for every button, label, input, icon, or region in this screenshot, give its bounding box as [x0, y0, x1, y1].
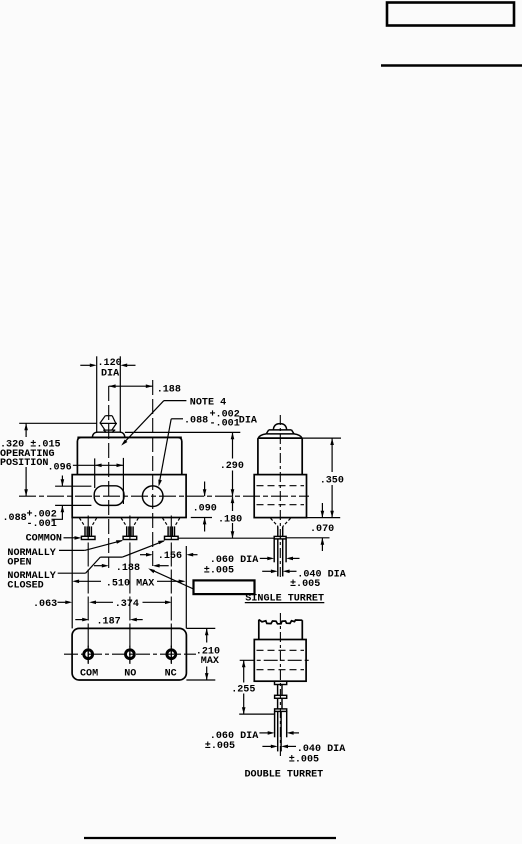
svg-text:±.005: ±.005 — [290, 579, 320, 590]
terminal COM — [79, 518, 96, 540]
double turret break line top — [259, 620, 303, 624]
double turret washer 1 — [275, 695, 287, 698]
extension line left body — [71, 518, 73, 629]
operating position reference line — [19, 422, 97, 424]
double turret stem segment 1 — [278, 685, 282, 696]
dim .040 DIA single turret — [262, 569, 347, 590]
svg-text:.374: .374 — [115, 599, 139, 610]
dim .060 DIA single turret — [204, 555, 300, 576]
note 4 label and leader — [121, 397, 226, 445]
double turret stem segment 2 — [278, 698, 282, 709]
svg-text:MAX: MAX — [201, 656, 220, 667]
svg-text:.120: .120 — [98, 358, 122, 369]
dim .120 DIA — [80, 358, 135, 380]
dim .180 — [218, 496, 242, 538]
double turret .255 bottom reference line — [239, 713, 274, 715]
plunger sides / .120 extension lines — [97, 356, 121, 432]
bottom view hole NO — [125, 646, 134, 663]
svg-text:NC: NC — [165, 668, 177, 679]
single turret center line — [279, 415, 281, 577]
svg-text:COMMON: COMMON — [26, 533, 62, 544]
single turret funnel — [271, 518, 291, 526]
single turret body — [254, 475, 306, 518]
svg-text:NO: NO — [124, 668, 136, 679]
terminal base line to single turret — [178, 537, 274, 539]
circle hole center line vertical — [152, 380, 154, 572]
double turret caption — [245, 769, 324, 780]
dim .156 — [140, 551, 198, 562]
svg-text:.180: .180 — [218, 514, 242, 525]
double turret head — [259, 620, 303, 640]
label NORMALLY OPEN with leader — [7, 540, 123, 569]
svg-text:DIA: DIA — [101, 369, 120, 380]
single turret plunger tip — [258, 424, 302, 439]
svg-text:.156: .156 — [158, 551, 182, 562]
dim .070 — [286, 503, 334, 551]
svg-text:.088: .088 — [3, 513, 27, 524]
terminal NO — [121, 518, 138, 540]
svg-text:±.005: ±.005 — [289, 754, 319, 765]
dim .090 — [191, 482, 217, 532]
dim .210 MAX — [186, 628, 220, 680]
double turret center line — [279, 613, 281, 758]
single turret bottom extension line — [307, 517, 341, 519]
depressed reference line right of plunger — [125, 431, 240, 433]
dim .063 — [33, 599, 72, 610]
dim .255 — [231, 660, 255, 714]
svg-text:.060 DIA: .060 DIA — [210, 555, 259, 566]
bottom view hole COM — [84, 646, 93, 663]
terminal center lines — [88, 516, 171, 665]
svg-text:NOTE 4: NOTE 4 — [190, 397, 226, 408]
terminal NC — [163, 518, 180, 540]
single turret .350 reference line top — [302, 437, 341, 439]
dim .188 lower — [94, 563, 169, 574]
svg-text:.040 DIA: .040 DIA — [297, 744, 346, 755]
bottom view horizontal center line — [64, 653, 196, 655]
svg-text:±.005: ±.005 — [204, 566, 234, 577]
dim .188 top — [109, 384, 181, 395]
single turret lower stem inner — [278, 539, 283, 577]
label COM — [80, 668, 98, 679]
svg-text:.090: .090 — [193, 504, 217, 515]
svg-text:.510 MAX: .510 MAX — [106, 579, 155, 590]
dim .290 — [220, 432, 244, 496]
svg-text:.188: .188 — [157, 384, 181, 395]
label NC — [165, 668, 177, 679]
plunger base dome — [92, 432, 125, 437]
double turret lower stem outer — [275, 711, 287, 737]
bottom view hole NC — [167, 646, 176, 663]
header rule line top right — [381, 64, 522, 66]
svg-text:.290: .290 — [220, 461, 244, 472]
dim .096 slot width — [48, 458, 124, 504]
footer rule line bottom — [84, 837, 336, 839]
dim .060 DIA double turret — [205, 731, 299, 752]
plunger spring symbol — [100, 416, 117, 433]
revision flag box with leader — [148, 568, 254, 594]
svg-text:.070: .070 — [310, 524, 334, 535]
dim .374 — [89, 599, 172, 610]
main horizontal center line — [19, 495, 309, 497]
double turret neck collar — [275, 681, 287, 684]
svg-text:-.001: -.001 — [27, 519, 57, 530]
svg-text:±.005: ±.005 — [205, 741, 235, 752]
svg-text:.350: .350 — [320, 475, 344, 486]
svg-text:.096: .096 — [48, 462, 72, 473]
label COMMON with leader — [26, 533, 82, 544]
mounting circle hole — [142, 486, 163, 507]
single turret lower stem outer — [274, 539, 286, 562]
switch head upper block — [77, 437, 181, 474]
dim .320 operating position — [0, 423, 61, 496]
double turret washer 2 — [275, 709, 287, 712]
svg-text:COM: COM — [80, 668, 98, 679]
svg-text:OPEN: OPEN — [7, 558, 31, 569]
svg-text:-.001: -.001 — [210, 419, 240, 430]
single turret stem upper — [278, 526, 283, 536]
svg-text:POSITION: POSITION — [0, 458, 48, 469]
dim .187 — [75, 616, 142, 627]
double turret body — [254, 640, 306, 682]
double turret lower stem inner — [278, 711, 281, 751]
switch body lower block — [72, 475, 186, 518]
single turret caption — [245, 594, 324, 605]
mounting slot hole — [94, 486, 124, 506]
extension line right body — [185, 546, 187, 628]
label NO — [124, 668, 136, 679]
title block box top right — [387, 3, 514, 26]
bottom view outline — [72, 628, 186, 680]
dim .088 +.002 -.001 slot height (left) — [3, 476, 92, 530]
dim .350 — [320, 438, 344, 517]
dim .510 MAX — [72, 579, 185, 590]
svg-text:CLOSED: CLOSED — [7, 581, 43, 592]
plunger center line — [108, 386, 110, 568]
label NORMALLY CLOSED with leader — [7, 540, 165, 591]
single turret head — [258, 438, 302, 475]
svg-text:DOUBLE TURRET: DOUBLE TURRET — [245, 769, 324, 780]
double turret horizontal center line — [240, 659, 311, 661]
dim .088 +.002 -.001 DIA top leader — [158, 410, 258, 487]
svg-text:.188: .188 — [116, 563, 140, 574]
svg-text:DIA: DIA — [239, 416, 258, 427]
single turret collar — [274, 536, 286, 539]
svg-text:.063: .063 — [33, 599, 57, 610]
dim .040 DIA double turret — [262, 744, 346, 765]
svg-text:.088: .088 — [184, 416, 208, 427]
svg-text:.187: .187 — [97, 616, 121, 627]
